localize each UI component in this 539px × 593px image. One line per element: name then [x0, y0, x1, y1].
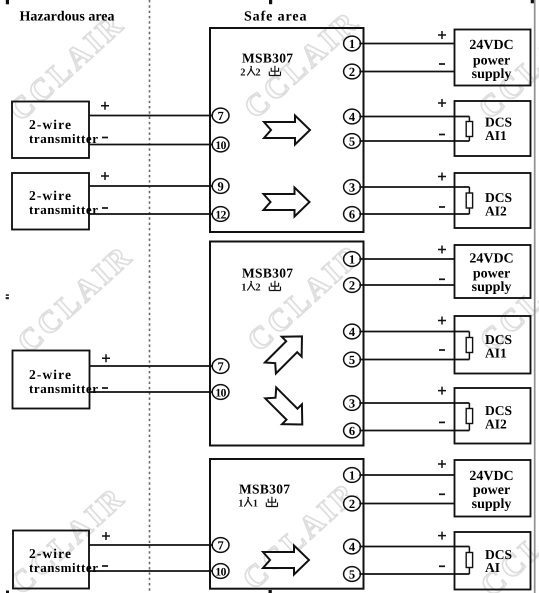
DCS AI2 box (middle) [455, 388, 531, 444]
terminal 6 [344, 207, 361, 222]
svg-text:2-wire: 2-wire [29, 367, 72, 382]
wire pin3 to AI2+ [359, 173, 469, 188]
wire pin4 to AI1+ [359, 99, 469, 117]
svg-text:1: 1 [349, 253, 355, 267]
terminal 1 [344, 252, 361, 267]
wire T1- to pin10 [89, 138, 213, 145]
area separator dashed line [149, 0, 151, 593]
crop mark top-left [6, 0, 9, 4]
wire T4+ to pin7 [89, 532, 213, 545]
terminal 2 [344, 496, 361, 511]
wire pin1 to PS3+ [359, 460, 454, 475]
svg-text:1: 1 [241, 282, 246, 293]
terminal 2 [344, 64, 361, 79]
svg-text:7: 7 [217, 539, 223, 553]
terminal 9 [212, 179, 229, 194]
terminal 1 [344, 468, 361, 483]
signal arrow down-right [261, 383, 312, 434]
svg-text:AI1: AI1 [485, 128, 507, 143]
wire pin2 to PS2- [359, 279, 454, 285]
label: Hazardous area [20, 10, 308, 25]
svg-text:1: 1 [253, 498, 258, 509]
svg-text:2-wire: 2-wire [29, 117, 72, 132]
transmitter T4 box [13, 531, 99, 589]
svg-text:2: 2 [255, 67, 260, 78]
signal arrow ch1 [264, 116, 310, 145]
signal arrow [263, 546, 309, 575]
label 1入2出 [241, 281, 280, 294]
svg-text:3: 3 [349, 181, 355, 195]
svg-text:12: 12 [215, 209, 226, 221]
terminal 10 [212, 385, 229, 400]
svg-text:7: 7 [217, 360, 223, 374]
transmitter T3 box [13, 351, 99, 409]
transmitter T2 box [12, 173, 99, 230]
terminal 3 [344, 396, 361, 411]
svg-text:power: power [473, 483, 510, 498]
wire pin5 to AI1- [359, 135, 469, 142]
svg-text:24VDC: 24VDC [469, 38, 513, 53]
crop mark bottom-left [6, 591, 9, 593]
svg-text:9: 9 [217, 180, 223, 194]
svg-text:2: 2 [349, 65, 355, 79]
AI2 load resistor [466, 409, 472, 424]
label 2入2出 [240, 66, 280, 79]
svg-text:4: 4 [349, 540, 356, 554]
wire T4- to pin10 [89, 566, 213, 571]
wire pin2 to PS1- [359, 64, 454, 72]
terminal 6 [344, 423, 361, 438]
wire pin6 to AI2- [359, 207, 469, 214]
svg-text:Hazardous area: Hazardous area [20, 10, 115, 25]
crop mark top-right [531, 0, 535, 3]
signal arrow ch2 [264, 188, 310, 217]
crop mark left-center [6, 294, 9, 299]
svg-text:5: 5 [349, 135, 355, 149]
svg-text:10: 10 [215, 566, 226, 578]
wire pin1 to PS1+ [359, 31, 454, 44]
terminal 10 [212, 564, 229, 579]
label MSB307 [242, 266, 293, 281]
crop mark bottom-center [269, 590, 272, 593]
wire pin4 to AI1+ [359, 317, 469, 332]
svg-text:24VDC: 24VDC [469, 252, 513, 267]
terminal 5 [344, 134, 361, 149]
svg-text:transmitter: transmitter [29, 381, 99, 396]
24VDC power supply PS2 [455, 245, 531, 298]
wire T2- to pin12 [89, 208, 213, 214]
AI2 link wire [468, 403, 470, 431]
isolator U2 MSB307 1in2out box [210, 242, 364, 446]
svg-text:2-wire: 2-wire [29, 546, 72, 561]
svg-text:AI2: AI2 [485, 417, 507, 432]
svg-text:MSB307: MSB307 [242, 51, 293, 66]
DCS AI box (bottom) [455, 532, 531, 590]
AI load resistor [466, 553, 472, 568]
terminal 5 [344, 567, 361, 582]
24VDC power supply PS3 [455, 460, 531, 517]
svg-text:24VDC: 24VDC [469, 469, 513, 484]
svg-text:6: 6 [349, 208, 355, 222]
svg-text:2: 2 [255, 282, 260, 293]
svg-text:AI: AI [485, 560, 500, 575]
terminal 7 [212, 359, 229, 374]
svg-text:transmitter: transmitter [29, 560, 99, 575]
wire pin4 to AI+ [359, 532, 469, 547]
svg-text:2-wire: 2-wire [29, 188, 72, 203]
svg-text:transmitter: transmitter [29, 131, 99, 146]
DCS AI2 box [455, 173, 531, 228]
svg-text:CCLAIR: CCLAIR [10, 237, 140, 359]
label 1入1出 [238, 497, 277, 510]
wire pin1 to PS2+ [359, 246, 454, 260]
svg-text:1: 1 [238, 498, 243, 509]
signal arrow up-right [260, 326, 311, 377]
AI2 input link wire [468, 187, 470, 214]
svg-text:AI2: AI2 [485, 204, 507, 219]
terminal 4 [344, 539, 361, 554]
wire pin3 to AI2+ [359, 387, 469, 403]
isolator U1 MSB307 2in2out box [210, 28, 364, 232]
terminal 4 [344, 324, 361, 339]
wire pin5 to AI- [359, 566, 469, 574]
page right edge line [534, 0, 536, 593]
terminal 7 [212, 538, 229, 553]
transmitter T1 box [12, 102, 99, 159]
terminal 12 [212, 207, 229, 222]
label MSB307 [242, 51, 293, 66]
svg-text:CCLAIR: CCLAIR [3, 479, 133, 593]
24VDC power supply PS1 [455, 30, 531, 86]
DCS AI1 box (middle) [455, 316, 531, 374]
svg-text:10: 10 [215, 140, 226, 152]
svg-text:2: 2 [240, 67, 245, 78]
terminal 1 [344, 36, 361, 51]
wire T2+ to pin9 [89, 172, 213, 186]
svg-text:2: 2 [349, 497, 355, 511]
wire pin6 to AI2- [359, 422, 469, 430]
svg-text:MSB307: MSB307 [242, 266, 293, 281]
svg-text:5: 5 [349, 568, 355, 582]
svg-text:supply: supply [472, 497, 512, 512]
AI1 link wire [468, 332, 470, 360]
label MSB307 [239, 482, 290, 497]
wire T3- to pin10 [90, 388, 213, 392]
svg-text:AI1: AI1 [485, 346, 507, 361]
terminal 4 [344, 109, 361, 124]
svg-text:1: 1 [349, 37, 355, 51]
svg-text:supply: supply [472, 280, 512, 295]
svg-text:transmitter: transmitter [29, 202, 99, 217]
svg-text:3: 3 [349, 397, 355, 411]
AI1 load resistor [466, 338, 472, 353]
svg-text:4: 4 [349, 325, 356, 339]
terminal 2 [344, 278, 361, 293]
terminal 7 [212, 108, 229, 123]
svg-text:10: 10 [215, 387, 226, 399]
svg-text:7: 7 [217, 109, 223, 123]
terminal 3 [344, 180, 361, 195]
svg-text:1: 1 [349, 469, 355, 483]
DCS AI1 box [455, 101, 531, 156]
svg-text:Safe area: Safe area [244, 10, 307, 25]
svg-text:MSB307: MSB307 [239, 482, 290, 497]
wire pin2 to PS3- [359, 494, 454, 503]
wire pin5 to AI1- [359, 350, 469, 360]
AI1 input link wire [468, 117, 470, 142]
isolator U3 MSB307 1in1out box [210, 459, 364, 589]
wire T1+ to pin7 [89, 102, 213, 116]
svg-text:5: 5 [349, 353, 355, 367]
svg-text:2: 2 [349, 279, 355, 293]
crop mark top-center [269, 0, 272, 4]
AI1 load resistor [466, 122, 472, 137]
wire T3+ to pin7 [90, 354, 213, 366]
terminal 5 [344, 352, 361, 367]
AI link wire [468, 547, 470, 575]
terminal 10 [212, 137, 229, 152]
svg-text:supply: supply [472, 67, 512, 82]
AI2 load resistor [466, 193, 472, 208]
svg-text:6: 6 [349, 424, 355, 438]
svg-text:4: 4 [349, 110, 356, 124]
